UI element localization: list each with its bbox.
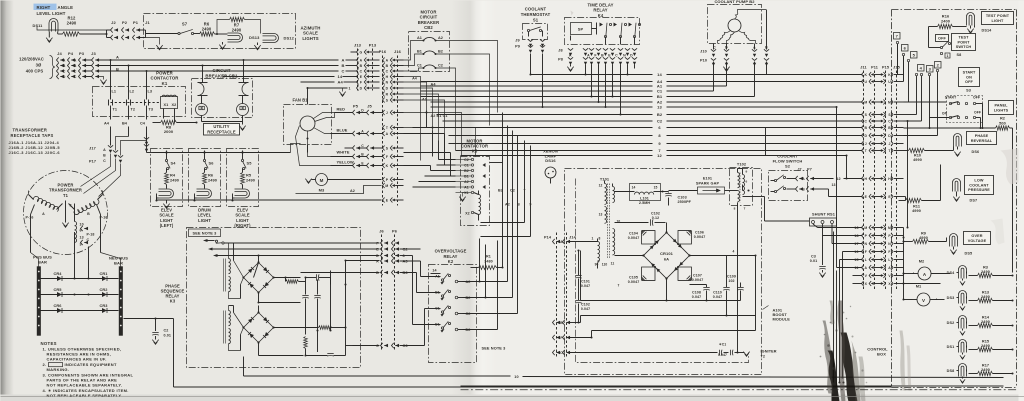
- svg-text:8: 8: [69, 204, 71, 208]
- ground: [239, 126, 245, 131]
- wire: [109, 59, 111, 98]
- meter M2 ammeter: [904, 259, 951, 281]
- svg-text:0.0047: 0.0047: [628, 236, 640, 240]
- svg-text:G: G: [360, 50, 363, 54]
- svg-text:X2: X2: [172, 103, 177, 107]
- svg-text:B: B: [103, 154, 106, 158]
- enclosure lamp box S4: [151, 149, 183, 207]
- svg-text:J8: J8: [558, 49, 562, 53]
- node 7 bus: [456, 148, 863, 153]
- svg-text:H: H: [386, 75, 389, 79]
- node 12 bus: [461, 153, 847, 158]
- svg-text:DS11: DS11: [33, 23, 44, 28]
- resistor R8: [153, 120, 198, 134]
- resistor R6: [203, 173, 218, 189]
- svg-text:M2: M2: [919, 259, 925, 264]
- node 13 bus: [431, 105, 837, 110]
- svg-text:B: B: [888, 126, 891, 130]
- resistor K3 R a: [286, 278, 306, 294]
- svg-text:A: A: [74, 59, 77, 63]
- svg-text:P4: P4: [68, 51, 74, 56]
- wire: [898, 44, 938, 136]
- connector P5 J5: [353, 104, 383, 169]
- svg-text:B: B: [865, 126, 868, 130]
- wire: [736, 185, 749, 354]
- node label CIRCUIT BREAKER CB1: [205, 68, 238, 78]
- svg-text:LIGHTS: LIGHTS: [302, 36, 318, 41]
- svg-text:M: M: [888, 100, 891, 104]
- svg-text:B: B: [361, 153, 364, 157]
- contact K2 B1: [435, 289, 450, 300]
- resistor R10: [904, 147, 954, 163]
- resistor R7: [217, 17, 261, 34]
- enclosure CB1: [192, 79, 253, 118]
- connector J13 pin E: [357, 74, 380, 79]
- wire: [203, 151, 205, 160]
- svg-text:A: A: [386, 132, 389, 136]
- ground: [254, 45, 260, 50]
- resistor R17: [967, 364, 1014, 376]
- connector J16 pin K: [383, 163, 404, 168]
- svg-text:J16C-3 J16C-13 J20C-6: J16C-3 J16C-13 J20C-6: [9, 150, 61, 155]
- wire T: [481, 141, 527, 223]
- contact K5 A2: [456, 180, 474, 184]
- connector J11 pin F lower: [853, 249, 904, 254]
- svg-text:F: F: [360, 80, 362, 84]
- svg-text:4990: 4990: [919, 236, 928, 240]
- wire F: [570, 331, 756, 339]
- switch S3: [942, 89, 983, 123]
- inductor L101: [605, 181, 661, 206]
- wire: [1, 396, 1024, 398]
- connector J11 pin N lower: [853, 241, 904, 246]
- node A2 bus: [431, 100, 863, 105]
- ground: [953, 197, 959, 202]
- enclosure fan: [284, 105, 332, 145]
- svg-text:110: 110: [602, 263, 608, 267]
- svg-text:D: D: [376, 254, 379, 258]
- svg-text:M: M: [320, 178, 324, 183]
- svg-text:C3: C3: [811, 255, 816, 259]
- resistor R3: [967, 266, 1014, 278]
- wire: [73, 269, 89, 296]
- svg-text:CR6: CR6: [53, 303, 62, 308]
- svg-text:J14: J14: [569, 236, 576, 240]
- wire: [463, 239, 518, 330]
- switch S2 b: [771, 186, 786, 193]
- lamp DS: [155, 189, 173, 202]
- capacitor C109: [723, 256, 736, 316]
- node label OVERVOLTAGE RELAY K2: [435, 249, 467, 265]
- svg-text:10: 10: [854, 250, 858, 254]
- svg-text:K: K: [865, 73, 868, 77]
- wire: [461, 385, 1004, 387]
- wire: [257, 254, 300, 302]
- ground: [819, 273, 825, 278]
- svg-text:✶C1: ✶C1: [719, 343, 726, 347]
- resistor K3 R c: [304, 331, 308, 357]
- node label RIGHT ANGLE LEVEL LIGHT: [34, 4, 74, 16]
- svg-text:J17: J17: [89, 147, 96, 151]
- svg-text:15: 15: [854, 258, 858, 262]
- contact K2 C2: [455, 312, 470, 316]
- node 10 wire: [244, 357, 1004, 380]
- svg-text:J6: J6: [379, 229, 384, 234]
- svg-text:A: A: [42, 212, 45, 216]
- svg-text:J4: J4: [57, 51, 62, 56]
- node B bus: [99, 63, 357, 72]
- node label TIME DELAY RELAY K4: [588, 3, 614, 18]
- ground: [960, 353, 965, 360]
- svg-text:BAR: BAR: [38, 260, 47, 265]
- svg-text:C107: C107: [693, 274, 702, 278]
- svg-text:T1: T1: [63, 193, 69, 198]
- receptacle: [237, 96, 249, 116]
- lamp DS2: [947, 316, 967, 329]
- resistor R1: [471, 255, 504, 270]
- svg-text:DS2: DS2: [947, 321, 955, 325]
- enclosure S2: [769, 171, 808, 201]
- svg-text:K: K: [386, 164, 389, 168]
- svg-text:DS6: DS6: [972, 150, 980, 154]
- wire: [404, 98, 462, 157]
- wire shunt to rows: [813, 224, 863, 260]
- svg-text:A2: A2: [438, 36, 443, 40]
- lamp DS11: [33, 19, 58, 36]
- svg-text:VOLTAGE: VOLTAGE: [968, 239, 987, 243]
- svg-text:PHASE: PHASE: [975, 134, 989, 138]
- svg-text:F: F: [865, 250, 867, 254]
- svg-text:S3: S3: [966, 89, 971, 93]
- svg-text:2490: 2490: [208, 178, 217, 183]
- svg-text:13: 13: [80, 236, 84, 240]
- svg-text:INDICATES EQUIPMENT: INDICATES EQUIPMENT: [65, 362, 117, 367]
- transformer K3 lower coil: [223, 306, 243, 351]
- node B1 bus: [421, 94, 755, 99]
- svg-text:BLUE: BLUE: [337, 128, 348, 133]
- svg-text:17: 17: [854, 242, 858, 246]
- svg-text:J2: J2: [111, 20, 116, 25]
- connector J16 pin R: [383, 92, 404, 97]
- svg-text:4990: 4990: [913, 158, 922, 162]
- wire B3: [286, 270, 417, 282]
- motor windings: [718, 10, 767, 44]
- node callout 4: [918, 65, 925, 72]
- svg-text:B: B: [517, 203, 520, 207]
- lamp DS6: [954, 134, 980, 155]
- svg-text:2000: 2000: [164, 129, 174, 134]
- svg-text:DS14: DS14: [982, 29, 993, 33]
- svg-text:C2: C2: [510, 189, 515, 193]
- node 12: [814, 154, 863, 181]
- wire fan leads: [296, 113, 353, 166]
- svg-text:4: 4: [733, 250, 735, 254]
- svg-text:J9: J9: [515, 39, 519, 43]
- wire: [570, 322, 581, 324]
- node A4 bus: [421, 79, 863, 84]
- switch S5: [241, 159, 252, 172]
- connector J16 pin A: [383, 58, 404, 63]
- connector J7 P7: [787, 168, 815, 192]
- connector J16 pin C: [383, 69, 404, 74]
- contact K5 X1: [456, 191, 474, 195]
- lamp DS3: [947, 291, 967, 304]
- connector J11 pin M lower: [853, 225, 904, 230]
- ground: [742, 352, 750, 357]
- resistor R6: [200, 22, 228, 37]
- svg-text:PRESSURE: PRESSURE: [968, 188, 990, 192]
- svg-text:SPARK GAP: SPARK GAP: [696, 182, 720, 186]
- svg-text:C105: C105: [629, 276, 638, 280]
- svg-text:OFF: OFF: [965, 80, 973, 84]
- svg-text:C103: C103: [678, 196, 687, 200]
- wire: [241, 151, 243, 160]
- svg-text:1: 1: [348, 87, 350, 91]
- node 6 bus: [413, 125, 863, 130]
- svg-text:RED: RED: [337, 107, 346, 112]
- svg-text:S5: S5: [247, 161, 253, 166]
- svg-text:14: 14: [338, 74, 343, 79]
- connector J11 pin V lower: [853, 273, 904, 278]
- ground: [62, 220, 68, 228]
- svg-text:P8: P8: [558, 58, 563, 62]
- lamp DS5: [950, 234, 973, 256]
- wire: [404, 88, 433, 131]
- svg-text:T2: T2: [761, 355, 766, 359]
- svg-text:PANEL: PANEL: [994, 103, 1008, 107]
- node C bus: [99, 69, 357, 74]
- node label FAN B1: [293, 98, 309, 103]
- wire: [127, 64, 129, 97]
- wire: [615, 190, 669, 192]
- node callout 3: [927, 66, 934, 73]
- svg-text:18: 18: [854, 234, 858, 238]
- svg-text:OVER: OVER: [971, 234, 982, 238]
- svg-text:B: B: [376, 271, 379, 275]
- capacitor C106: [694, 231, 706, 240]
- svg-text:102: 102: [728, 279, 734, 283]
- svg-text:X2: X2: [465, 212, 469, 216]
- contact K2 A1: [435, 273, 450, 284]
- svg-text:C: C: [103, 159, 106, 163]
- svg-text:P-18: P-18: [87, 233, 95, 237]
- svg-text:A: A: [116, 55, 119, 60]
- relay arrows K5: [483, 163, 486, 189]
- wire neg bus to frame: [124, 317, 892, 387]
- svg-text:J5: J5: [367, 104, 372, 109]
- svg-text:COOLANT: COOLANT: [525, 7, 547, 12]
- svg-text:13: 13: [599, 213, 603, 217]
- svg-text:14: 14: [432, 269, 436, 273]
- svg-text:TRANSFORMER: TRANSFORMER: [13, 128, 48, 133]
- connector J11 pin L lower: [853, 257, 904, 262]
- lamp DS1: [947, 340, 967, 353]
- wire: [146, 38, 160, 45]
- node label COOLANT THERMOSTAT S1: [521, 7, 551, 23]
- switch S7: [178, 22, 200, 35]
- wire: [291, 144, 301, 153]
- svg-text:DS12: DS12: [284, 36, 295, 41]
- enclosure coolant pump: [708, 5, 762, 44]
- svg-text:CR101: CR101: [660, 251, 674, 256]
- svg-text:K3: K3: [170, 299, 176, 304]
- node label OFF: [936, 35, 949, 42]
- svg-text:2490: 2490: [170, 178, 179, 183]
- node label MOTOR CONTACTOR K5: [461, 139, 488, 154]
- resistor R9: [902, 232, 946, 244]
- svg-text:RECEPTACLE TAPS: RECEPTACLE TAPS: [11, 133, 54, 138]
- bridge rectifier K3 upper: [242, 261, 274, 293]
- contact K5 C1: [456, 163, 474, 167]
- connector J13 pin A: [357, 58, 380, 63]
- wire: [145, 70, 147, 98]
- node label POWER TRANSFORMER T1: [49, 183, 82, 198]
- svg-text:COOLANT PUMP B2: COOLANT PUMP B2: [714, 0, 755, 4]
- node label TEST POINT SWITCH: [952, 34, 976, 51]
- ground: [163, 201, 169, 209]
- wire: [257, 261, 346, 346]
- svg-text:3Ø: 3Ø: [36, 63, 42, 68]
- svg-text:M: M: [864, 100, 867, 104]
- svg-text:0.01: 0.01: [164, 334, 172, 338]
- svg-text:P15: P15: [882, 66, 889, 70]
- svg-text:0.047: 0.047: [692, 295, 702, 299]
- diode CR3: [99, 303, 108, 313]
- motor coolant pump: [728, 19, 741, 32]
- contact K5 B2: [456, 169, 474, 173]
- svg-text:F: F: [888, 250, 890, 254]
- wire: [146, 33, 178, 35]
- node A2 step: [296, 186, 382, 194]
- wire: [404, 82, 437, 111]
- svg-text:S2: S2: [785, 164, 791, 169]
- contact L3 T3: [145, 90, 154, 113]
- node callout 2: [935, 62, 942, 69]
- svg-text:J13: J13: [354, 43, 362, 48]
- connector J11 pin J: [853, 141, 904, 146]
- receptacle: [196, 96, 208, 116]
- wire C3: [346, 343, 425, 348]
- enclosure igniter inner: [576, 179, 749, 363]
- svg-text:2490: 2490: [67, 21, 77, 26]
- connector J17 P17: [89, 145, 123, 163]
- svg-text:A2: A2: [505, 203, 510, 207]
- connector J2 P2 P1 J1: [37, 20, 150, 40]
- svg-text:K1: K1: [162, 81, 168, 86]
- svg-text:J7: J7: [797, 168, 801, 172]
- svg-text:0.0047: 0.0047: [692, 278, 704, 282]
- svg-text:C2: C2: [466, 312, 471, 316]
- svg-text:120/208VAC: 120/208VAC: [19, 57, 44, 62]
- wire: [404, 68, 424, 71]
- bus bar negative: [119, 267, 123, 336]
- svg-text:SEE NOTE 3: SEE NOTE 3: [193, 231, 218, 236]
- svg-text:J: J: [889, 142, 891, 146]
- svg-text:J15: J15: [893, 66, 900, 70]
- svg-text:P7: P7: [807, 168, 812, 172]
- svg-text:B2: B2: [466, 296, 471, 300]
- svg-text:P6: P6: [392, 229, 398, 234]
- node label XENON LAMP DS16: [543, 149, 558, 164]
- svg-text:OVERVOLTAGE: OVERVOLTAGE: [435, 249, 467, 254]
- meter M3: [312, 174, 382, 193]
- wire 14 K2: [431, 269, 441, 274]
- wire: [201, 59, 244, 83]
- resistor R14: [967, 316, 1014, 328]
- ground: [100, 80, 106, 85]
- node label POS BUS BAR: [33, 255, 52, 265]
- wire: [101, 221, 121, 267]
- svg-text:1: 1: [947, 54, 949, 58]
- ground: [46, 36, 52, 43]
- node 14 bus: [531, 72, 863, 77]
- wire: [75, 232, 89, 269]
- node label POWER CONTACTOR K1: [151, 71, 180, 86]
- svg-text:C: C: [360, 69, 363, 73]
- svg-text:RECEPTACLE: RECEPTACLE: [207, 129, 236, 134]
- svg-text:R9: R9: [921, 232, 926, 236]
- node label: [159, 208, 174, 229]
- svg-text:C2: C2: [164, 329, 169, 333]
- svg-text:COOLANT: COOLANT: [969, 183, 989, 187]
- motor fan B1: [300, 116, 315, 131]
- node label OVER VOLTAGE: [964, 232, 991, 245]
- wire: [165, 151, 167, 160]
- svg-text:✶: ✶: [641, 229, 644, 233]
- wire: [436, 68, 456, 151]
- svg-text:P11: P11: [871, 66, 878, 70]
- capacitor C105: [628, 276, 640, 285]
- svg-text:C: C: [342, 69, 345, 74]
- svg-text:2490: 2490: [232, 28, 242, 33]
- svg-text:10: 10: [80, 223, 84, 227]
- svg-text:M1: M1: [916, 284, 922, 289]
- svg-text:D: D: [888, 134, 891, 138]
- connector J11 pin S: [853, 112, 904, 117]
- node label START ON OFF: [959, 68, 980, 87]
- svg-text:A4: A4: [104, 122, 110, 126]
- transformer K3 upper coil: [223, 243, 240, 299]
- svg-text:A: A: [360, 58, 363, 62]
- connector J11 pin D: [853, 133, 904, 138]
- wire E C2: [208, 247, 421, 252]
- transformer T1 winding left: [26, 191, 63, 221]
- transformer T102: [730, 162, 753, 211]
- svg-text:T3: T3: [149, 108, 154, 112]
- connector J16 pin P: [383, 177, 404, 182]
- ground: [960, 279, 965, 286]
- svg-text:C101: C101: [581, 280, 590, 284]
- capacitor C110: [713, 283, 744, 301]
- wire: [404, 134, 456, 177]
- connector J13 pin C: [357, 69, 380, 74]
- connector J16 pin D: [383, 86, 404, 91]
- svg-text:2500PF: 2500PF: [678, 200, 692, 204]
- transformer T1 center winding: [66, 201, 95, 247]
- bridge rectifier K3 lower: [242, 311, 274, 343]
- svg-text:MARKING.: MARKING.: [47, 367, 70, 372]
- wire: [427, 111, 456, 160]
- svg-text:LEVEL LIGHT: LEVEL LIGHT: [37, 11, 66, 16]
- svg-text:U: U: [865, 80, 868, 84]
- svg-text:A: A: [342, 58, 345, 63]
- wire: [404, 77, 421, 161]
- node label LOW COOLANT PRESSURE: [965, 176, 994, 195]
- connector J11 pin U: [853, 79, 904, 84]
- lamp DS: [231, 189, 249, 202]
- svg-text:9: 9: [529, 203, 531, 207]
- connector J16 pin F: [383, 154, 404, 159]
